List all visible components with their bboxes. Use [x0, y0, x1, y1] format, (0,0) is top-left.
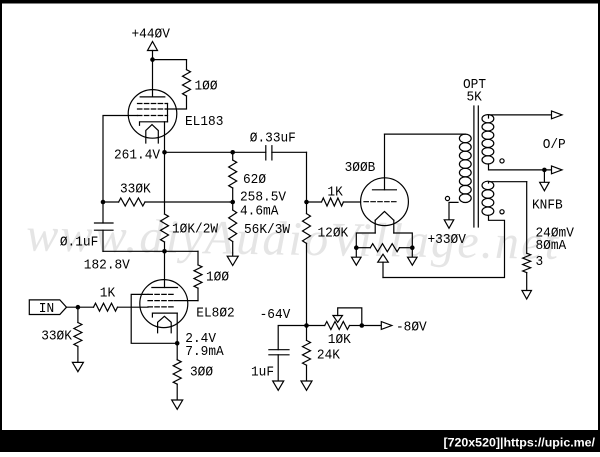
svg-text:56K/3W: 56K/3W: [244, 222, 290, 238]
svg-text:EL183: EL183: [185, 114, 223, 130]
svg-text:3ØØ: 3ØØ: [190, 364, 213, 380]
svg-text:[720x520]|https://upic.me/: [720x520]|https://upic.me/: [443, 435, 595, 449]
svg-text:Ø.1uF: Ø.1uF: [60, 234, 98, 250]
svg-text:62Ø: 62Ø: [243, 172, 266, 188]
svg-text:O/P: O/P: [543, 137, 566, 153]
svg-text:261.4V: 261.4V: [114, 147, 160, 163]
svg-text:1uF: 1uF: [251, 364, 274, 380]
svg-text:1K: 1K: [100, 285, 115, 301]
svg-text:33ØK: 33ØK: [41, 328, 72, 344]
svg-text:1ØØ: 1ØØ: [195, 78, 218, 94]
svg-text:7.9mA: 7.9mA: [185, 344, 223, 360]
svg-text:24K: 24K: [317, 347, 340, 363]
svg-text:1ØK/2W: 1ØK/2W: [172, 221, 218, 237]
svg-text:EL8Ø2: EL8Ø2: [196, 305, 234, 321]
svg-text:3: 3: [536, 254, 544, 270]
svg-text:KNFB: KNFB: [532, 197, 563, 213]
svg-text:182.8V: 182.8V: [84, 257, 130, 273]
svg-text:4.6mA: 4.6mA: [240, 203, 278, 219]
svg-text:1ØØ: 1ØØ: [206, 269, 229, 285]
svg-text:Ø.33uF: Ø.33uF: [250, 130, 296, 146]
svg-text:IN: IN: [39, 300, 54, 316]
svg-text:1ØK: 1ØK: [328, 332, 351, 348]
svg-text:-8ØV: -8ØV: [396, 319, 427, 335]
svg-text:33ØK: 33ØK: [120, 181, 151, 197]
svg-text:1K: 1K: [327, 184, 342, 200]
svg-text:-64V: -64V: [260, 307, 291, 323]
svg-text:3ØØB: 3ØØB: [345, 160, 376, 176]
svg-text:+44ØV: +44ØV: [131, 26, 169, 42]
svg-text:12ØK: 12ØK: [318, 225, 349, 241]
svg-text:8ØmA: 8ØmA: [536, 238, 567, 254]
svg-text:+33ØV: +33ØV: [428, 232, 466, 248]
svg-text:5K: 5K: [467, 89, 482, 105]
